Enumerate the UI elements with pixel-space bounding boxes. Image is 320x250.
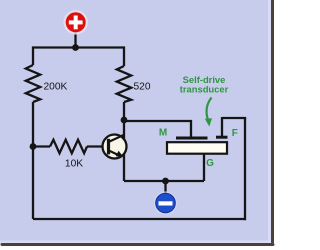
wire: left rail lower (200K bottom to bottom rail): [32, 102, 34, 219]
light ringing band above bottom border: [0, 241, 271, 244]
battery negative terminal halo: [154, 191, 177, 214]
transducer piezo disc: [167, 142, 227, 154]
transistor Q1 base bar: [107, 139, 110, 155]
wire: G electrode drop: [203, 153, 205, 181]
resistor R3 10K zigzag: [50, 140, 87, 153]
wire: F jog horizontal: [222, 117, 246, 119]
battery negative terminal: [156, 193, 176, 213]
node: emitter-rail junction dot: [162, 178, 169, 185]
transducer F electrode plate: [216, 136, 228, 139]
wire: minus terminal stub: [164, 181, 166, 195]
resistor R1 200K zigzag: [26, 65, 40, 102]
svg-text:10K: 10K: [65, 159, 83, 170]
light ringing band left of right border: [268, 0, 271, 243]
wire: base wire right: [87, 145, 110, 147]
wire: F electrode riser: [221, 117, 223, 137]
svg-text:M: M: [159, 127, 167, 138]
svg-text:transducer: transducer: [180, 83, 229, 94]
svg-text:G: G: [206, 158, 214, 169]
wire: emitter rail horizontal: [124, 180, 204, 182]
wire: top rail: [33, 46, 124, 48]
wire: base wire left: [33, 145, 50, 147]
annotation arrow: [207, 98, 212, 120]
resistor R2 520 zigzag: [117, 66, 131, 102]
transistor Q1 emitter stroke: [109, 151, 121, 157]
svg-text:520: 520: [134, 82, 151, 93]
frame border bottom: [2, 243, 273, 246]
wire: right rail: [244, 118, 246, 220]
transistor Q1 collector stroke: [109, 135, 124, 142]
svg-text:F: F: [232, 128, 238, 139]
wire: plus terminal stub: [74, 30, 76, 48]
transistor Q1 emitter arrowhead: [116, 151, 124, 157]
transistor Q1 body: [103, 135, 127, 159]
wire: bottom rail: [33, 218, 245, 220]
transducer M electrode plate: [176, 137, 208, 140]
svg-text:200K: 200K: [44, 82, 68, 93]
frame border right: [271, 0, 274, 243]
wire: left rail upper (to 200K top): [32, 46, 34, 65]
wire: M electrode feed: [124, 121, 191, 138]
wire: 520 top stub: [123, 46, 125, 66]
plus sign: [69, 20, 83, 24]
node: collector junction dot: [121, 117, 128, 124]
node: base-rail junction dot: [30, 143, 37, 150]
wire: collector column (520 bottom through junction to emitter rail): [123, 102, 125, 181]
battery positive terminal halo: [63, 10, 88, 35]
minus sign: [159, 201, 173, 205]
node: supply junction dot: [72, 44, 79, 51]
battery positive terminal: [66, 12, 86, 32]
